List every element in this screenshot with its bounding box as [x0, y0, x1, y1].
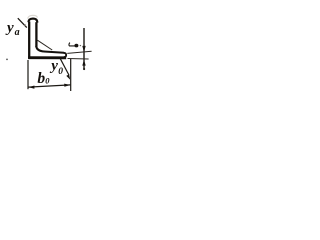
angle section: vertical leg left outer edge: [28, 22, 30, 59]
extension line left (x=28): [27, 60, 29, 89]
label d (squiggle): [69, 43, 75, 46]
horizontal leg bottom outer edge: [28, 56, 66, 59]
arrow down on d line: [82, 46, 85, 52]
axis y0 segment top-left: [18, 18, 27, 27]
bottom extension line of d: [68, 58, 89, 61]
svg-text:0: 0: [58, 67, 63, 77]
extension line right (x=70.7): [70, 59, 72, 91]
speck noise: [6, 59, 8, 61]
axis y0 segment bottom with arrowhead: [60, 59, 69, 75]
dimension line b0: [28, 85, 70, 87]
svg-text:y: y: [5, 20, 14, 36]
svg-text:y: y: [49, 58, 58, 74]
faint scan halo above cap: [28, 15, 38, 18]
arrow up on d line: [82, 60, 85, 66]
top extension line of d: [67, 51, 91, 53]
svg-text:0: 0: [45, 75, 50, 85]
axis y0 segment inner corner: [38, 40, 53, 50]
d-dimension vertical line: [83, 28, 85, 69]
svg-text:a: a: [15, 27, 20, 38]
leg tip rounded end: [64, 53, 67, 57]
vertical leg rounded cap: [28, 19, 37, 23]
arrow right of b0: [64, 84, 70, 87]
svg-text:b: b: [37, 70, 45, 87]
inner fillet: [36, 46, 44, 52]
vertical leg inner edge: [35, 22, 37, 47]
arrow left of b0: [29, 86, 35, 89]
background: [0, 0, 110, 94]
horizontal leg top (tapered) edge: [44, 52, 64, 53]
